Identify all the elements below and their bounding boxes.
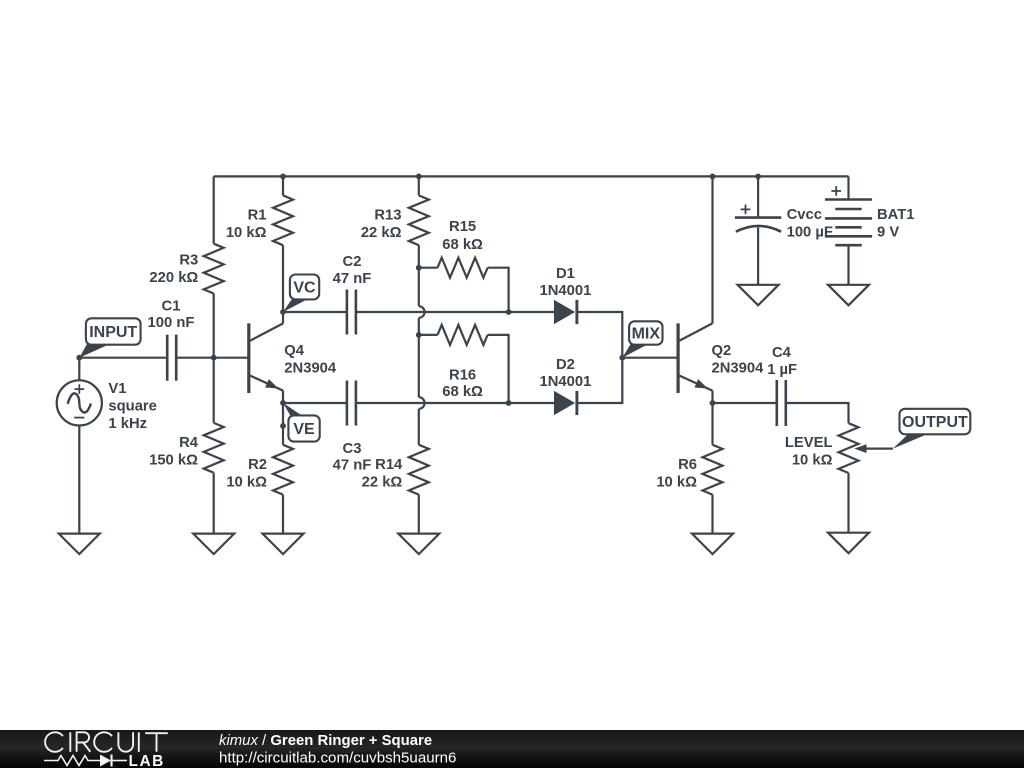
label V1 (108, 381, 126, 397)
label C3 (343, 441, 362, 457)
ground R2 (263, 534, 304, 555)
svg-text:C3: C3 (343, 441, 362, 457)
label D1 (556, 266, 575, 282)
label C4 (772, 345, 792, 361)
footer bar (0, 730, 1024, 769)
node R16 D2 junction (506, 400, 512, 406)
diode D1 (554, 300, 577, 324)
label Q2 (712, 343, 732, 359)
wire base node to Q4 base (214, 357, 249, 359)
svg-text:1 µF: 1 µF (767, 362, 797, 378)
value R1 10 k&#937; (226, 225, 267, 241)
label C2 (343, 254, 362, 270)
value R16 68 k&#937; (442, 384, 483, 400)
value C2 47 nF (333, 271, 372, 287)
capacitor C2 (347, 290, 356, 335)
wire Q4 collector up (282, 312, 284, 323)
wire Q2 collector to rail (711, 176, 713, 323)
wire R1 to VC node (282, 245, 284, 312)
wire BAT1 top lead (847, 176, 849, 199)
wire rail to R13 (418, 176, 420, 195)
wire R2 to ground (282, 495, 284, 534)
svg-text:47 nF: 47 nF (333, 458, 372, 474)
node Q4 emitter junction (280, 400, 286, 406)
label R1 (248, 208, 267, 224)
value C4 1 &#181;F (767, 362, 797, 378)
wire D1 anode (509, 311, 554, 313)
diode D2 (554, 391, 577, 415)
battery BAT1 plate5 long (825, 235, 872, 238)
value R4 150 k&#937; (149, 453, 198, 469)
label R4 (179, 435, 199, 451)
wire Q2 emitter to C4 (713, 402, 777, 404)
svg-text:http://circuitlab.com/cuvbsh5u: http://circuitlab.com/cuvbsh5uaurn6 (219, 749, 456, 766)
svg-text:Q4: Q4 (284, 343, 305, 359)
wiper arrow LEVEL (854, 444, 893, 453)
source V1 minus (74, 417, 84, 419)
flag OUTPUT (893, 409, 970, 449)
label R16 (449, 368, 476, 384)
wire MIX to Q2 base (622, 357, 678, 359)
wire D2 cathode to MIX (577, 358, 622, 403)
capacitor C3 (347, 381, 356, 426)
value BAT1 9 V (877, 224, 899, 240)
source V1 sine (68, 393, 91, 412)
source V1 circle (57, 380, 102, 425)
svg-text:1N4001: 1N4001 (539, 374, 591, 390)
wire R15 left lead (419, 267, 438, 269)
svg-text:C1: C1 (162, 298, 181, 314)
wire C2 to D1 node (356, 311, 509, 313)
svg-text:R14: R14 (375, 457, 403, 473)
svg-text:R6: R6 (678, 457, 697, 473)
ground R4 (193, 534, 234, 555)
wire Vcc top rail (214, 175, 849, 177)
svg-text:LEVEL: LEVEL (785, 435, 833, 451)
svg-text:10 kΩ: 10 kΩ (656, 475, 697, 491)
label R15 (449, 219, 476, 235)
value R15 68 k&#937; (442, 237, 483, 253)
resistor R14 (409, 445, 429, 495)
value LEVEL 10 k&#937; (792, 453, 833, 469)
wire emitter to R2 (282, 403, 284, 445)
wire hop2 to R14 (418, 409, 420, 445)
label R3 (179, 253, 198, 269)
svg-text:OUTPUT: OUTPUT (902, 414, 968, 431)
flag VE (283, 403, 320, 442)
battery BAT1 plus (831, 186, 841, 196)
wire C3 to D2 node (356, 402, 509, 404)
svg-text:10 kΩ: 10 kΩ (226, 475, 267, 491)
svg-text:220 kΩ: 220 kΩ (149, 270, 198, 286)
label LEVEL (785, 435, 833, 451)
wire BAT1 to ground (847, 245, 849, 285)
label R14 (375, 457, 403, 473)
node R15 junction (416, 265, 422, 271)
resistor R2 (273, 445, 293, 495)
svg-text:C4: C4 (772, 345, 792, 361)
node MIX junction (619, 355, 625, 361)
value Q4 2N3904 (284, 360, 337, 376)
wire hop over VC row (419, 306, 425, 318)
ground R6 (692, 534, 733, 555)
ground V1 (59, 534, 100, 555)
node R15 D1 junction (506, 309, 512, 315)
wire V1 to ground (78, 426, 80, 534)
svg-text:kimux / Green Ringer + Square: kimux / Green Ringer + Square (219, 732, 432, 748)
value C1 100 nF (148, 315, 195, 331)
wire hop to R16 node (418, 318, 420, 335)
label R6 (678, 457, 697, 473)
node rail Q2 junction (710, 174, 716, 180)
node R16 junction (416, 332, 422, 338)
capacitor C1 (167, 335, 176, 381)
svg-text:100 nF: 100 nF (148, 315, 195, 331)
wire LEVEL to ground (847, 473, 849, 533)
wire emitter to R6 (711, 403, 713, 445)
wire VC to C2 (283, 311, 347, 313)
svg-text:10 kΩ: 10 kΩ (792, 453, 833, 469)
svg-text:22 kΩ: 22 kΩ (362, 475, 403, 491)
resistor R6 (703, 445, 723, 495)
svg-text:47 nF: 47 nF (333, 271, 372, 287)
value D1 1N4001 (539, 283, 591, 299)
capacitor Cvcc curved plate (736, 226, 781, 232)
wire C4 to LEVEL (786, 403, 849, 423)
ground LEVEL (828, 533, 869, 554)
svg-text:1 kHz: 1 kHz (108, 416, 147, 432)
svg-text:R15: R15 (449, 219, 476, 235)
svg-text:D1: D1 (556, 266, 575, 282)
transistor Q2 (678, 323, 712, 393)
wire R14 to ground (418, 495, 420, 534)
resistor R3 (204, 244, 224, 294)
logo resistor squiggle (44, 755, 100, 765)
battery BAT1 plate4 short (835, 226, 861, 229)
label Cvcc (787, 207, 822, 223)
capacitor C4 (777, 380, 786, 426)
svg-text:2N3904: 2N3904 (284, 360, 337, 376)
value V1 square (108, 398, 157, 414)
wire R16 left lead (419, 334, 438, 336)
wire D1 cathode to MIX (577, 312, 622, 358)
wire R15 right lead (488, 268, 509, 312)
battery BAT1 plate2 short (835, 208, 861, 211)
wire D2 anode (509, 402, 554, 404)
svg-text:LAB: LAB (129, 753, 165, 769)
svg-text:C2: C2 (343, 254, 362, 270)
svg-text:R16: R16 (449, 368, 476, 384)
value D2 1N4001 (539, 374, 591, 390)
battery BAT1 plate1 long (825, 198, 872, 201)
label D2 (556, 357, 575, 373)
ground Cvcc (738, 285, 779, 306)
wire R3 to base node (213, 294, 215, 358)
node VE tap (280, 423, 286, 429)
node INPUT junction (76, 355, 82, 361)
label C1 (162, 298, 181, 314)
title kimux / Green Ringer + Square (219, 732, 432, 748)
wire base node to R4 (213, 358, 215, 423)
wire R6 to ground (711, 495, 713, 534)
svg-text:R4: R4 (179, 435, 199, 451)
wire hop over emitter row (419, 397, 425, 409)
label R2 (248, 457, 267, 473)
value R3 220 k&#937; (149, 270, 198, 286)
wire R15 node down to hop (418, 268, 420, 307)
wire R4 to ground (213, 473, 215, 534)
wire rail to R3 (213, 176, 215, 243)
wire R16 node down to hop2 (418, 335, 420, 397)
svg-text:9 V: 9 V (877, 224, 899, 240)
value Q2 2N3904 (712, 360, 765, 376)
wire R16 right lead (488, 335, 509, 403)
svg-text:Cvcc: Cvcc (787, 207, 822, 223)
svg-text:68 kΩ: 68 kΩ (442, 384, 483, 400)
resistor R16 (438, 325, 488, 345)
value R13 22 k&#937; (361, 225, 402, 241)
label BAT1 (877, 207, 915, 223)
flag MIX (622, 321, 662, 357)
label Q4 (284, 343, 305, 359)
svg-text:2N3904: 2N3904 (712, 360, 765, 376)
svg-text:Q2: Q2 (712, 343, 732, 359)
svg-text:R2: R2 (248, 457, 267, 473)
node Q2 emitter junction (710, 400, 716, 406)
svg-text:INPUT: INPUT (89, 324, 137, 341)
url http://circuitlab.com/cuvbsh5uaurn6 (219, 749, 456, 766)
svg-text:22 kΩ: 22 kΩ (361, 225, 402, 241)
logo diode symbol (100, 754, 127, 766)
wire INPUT node to V1 (78, 358, 80, 381)
capacitor Cvcc top plate (735, 216, 781, 219)
svg-text:VC: VC (293, 279, 316, 296)
node rail R13 junction (416, 174, 422, 180)
wire Q4 emitter down (282, 391, 284, 403)
svg-text:100 µF: 100 µF (787, 224, 833, 240)
svg-text:150 kΩ: 150 kΩ (149, 453, 198, 469)
resistor R1 (273, 195, 293, 245)
value V1 1 kHz (108, 416, 147, 432)
logo LAB text (129, 753, 165, 769)
value Cvcc 100 &#181;F (787, 224, 833, 240)
value R2 10 k&#937; (226, 475, 267, 491)
node rail Cvcc junction (755, 174, 761, 180)
node base junction (211, 355, 217, 361)
flag INPUT (79, 318, 140, 357)
svg-text:R13: R13 (374, 208, 401, 224)
resistor R15 (438, 258, 488, 278)
value R6 10 k&#937; (656, 475, 697, 491)
capacitor Cvcc plus (741, 205, 751, 215)
svg-text:VE: VE (293, 421, 315, 438)
svg-text:68 kΩ: 68 kΩ (442, 237, 483, 253)
ground R14 (398, 534, 439, 555)
logo CIRCUIT text (45, 732, 168, 752)
flag VC (283, 275, 319, 313)
battery BAT1 plate3 long (825, 217, 872, 220)
svg-text:square: square (108, 398, 157, 414)
svg-text:1N4001: 1N4001 (539, 283, 591, 299)
wire input node to C1 (79, 357, 167, 359)
wire C1 to base node (176, 357, 214, 359)
battery BAT1 plate6 short (835, 244, 861, 247)
potentiometer LEVEL (839, 423, 859, 473)
wire emitter to C3 (283, 402, 347, 404)
label R13 (374, 208, 401, 224)
node VC junction (280, 309, 286, 315)
wire R13 to R15 node (418, 245, 420, 268)
value C3 47 nF (333, 458, 372, 474)
svg-text:V1: V1 (108, 381, 126, 397)
svg-text:10 kΩ: 10 kΩ (226, 225, 267, 241)
resistor R13 (409, 195, 429, 245)
node rail R1 junction (280, 174, 286, 180)
wire rail to R1 (282, 176, 284, 195)
wire rail to Cvcc (757, 176, 759, 217)
svg-text:R3: R3 (179, 253, 198, 269)
source V1 plus (75, 384, 85, 394)
svg-text:MIX: MIX (632, 325, 661, 342)
transistor Q4 (249, 323, 283, 393)
svg-text:R1: R1 (248, 208, 267, 224)
wire Cvcc to ground (757, 228, 759, 285)
svg-text:D2: D2 (556, 357, 575, 373)
resistor R4 (204, 423, 224, 473)
svg-text:BAT1: BAT1 (877, 207, 915, 223)
wire Q2 emitter down (711, 391, 713, 403)
value R14 22 k&#937; (362, 475, 403, 491)
ground BAT1 (828, 285, 869, 306)
